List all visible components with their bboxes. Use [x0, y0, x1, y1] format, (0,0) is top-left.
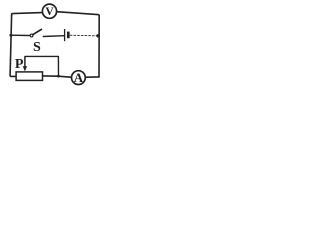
wire battery to right junction — [70, 34, 98, 37]
wire switch branch left — [11, 34, 30, 36]
wire right vertical — [98, 16, 100, 77]
node left junction — [9, 34, 12, 37]
svg-text:A: A — [74, 70, 84, 85]
switch S pivot — [30, 34, 33, 37]
svg-text:V: V — [45, 6, 54, 18]
node slider junction — [57, 75, 60, 78]
rheostat R1 body — [16, 72, 42, 81]
wire top-right (voltmeter to corner) — [57, 12, 100, 16]
wire bottom (ammeter to rheostat) — [43, 76, 71, 77]
rheostat slider arrow P — [24, 56, 26, 67]
wire slider to junction — [25, 56, 58, 76]
voltmeter V1 — [42, 4, 56, 18]
node right junction — [96, 34, 99, 37]
battery plate long — [64, 29, 66, 41]
wire bottom-right (corner to ammeter) — [86, 76, 99, 78]
svg-text:P: P — [15, 57, 24, 72]
ammeter A1 — [72, 71, 86, 85]
svg-text:S: S — [33, 40, 41, 55]
wire top-left (corner to voltmeter) — [12, 13, 42, 16]
battery plate short — [67, 32, 70, 39]
switch S lever — [33, 29, 42, 34]
wire left vertical — [10, 16, 16, 77]
wire switch to battery — [43, 35, 64, 38]
